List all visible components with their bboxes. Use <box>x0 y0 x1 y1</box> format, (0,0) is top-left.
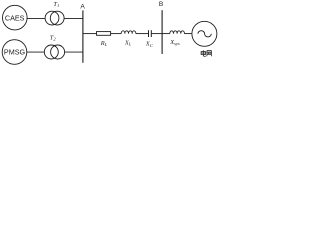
wire RL to XL <box>111 33 122 35</box>
sine wave <box>198 31 211 37</box>
label grid (dian) <box>201 50 206 56</box>
bus A <box>82 10 84 62</box>
svg-text:Xsys: Xsys <box>169 39 180 46</box>
wire bus B to Xsys <box>162 33 170 35</box>
wire XL to XC <box>136 33 148 35</box>
resistor RL <box>97 32 111 36</box>
bus B <box>161 10 163 54</box>
svg-text:T2: T2 <box>50 34 57 41</box>
generator CAES <box>3 5 28 30</box>
svg-text:XC: XC <box>145 41 154 48</box>
svg-text:CAES: CAES <box>5 13 25 22</box>
wire PMSG to T2 <box>27 51 45 53</box>
svg-text:T1: T1 <box>53 1 59 8</box>
wire Xsys to grid <box>184 33 191 35</box>
wire T1 to bus A <box>64 18 83 20</box>
label grid (wang) <box>207 51 212 57</box>
AC source grid circle <box>192 21 217 46</box>
generator PMSG <box>2 40 27 65</box>
wire CAES to T1 <box>27 18 45 20</box>
transformer T1 <box>45 11 64 25</box>
transformer T2 <box>44 45 64 59</box>
wire T2 to bus A <box>65 51 83 53</box>
svg-text:RL: RL <box>100 40 108 47</box>
inductor XL <box>121 31 136 34</box>
svg-text:A: A <box>80 4 85 11</box>
inductor Xsys <box>170 31 185 34</box>
svg-text:XL: XL <box>124 39 132 46</box>
svg-text:B: B <box>159 1 164 8</box>
wire XC to bus B <box>152 33 163 35</box>
capacitor XC <box>149 30 152 37</box>
wire bus A to RL <box>83 33 97 35</box>
svg-text:PMSG: PMSG <box>4 48 26 57</box>
